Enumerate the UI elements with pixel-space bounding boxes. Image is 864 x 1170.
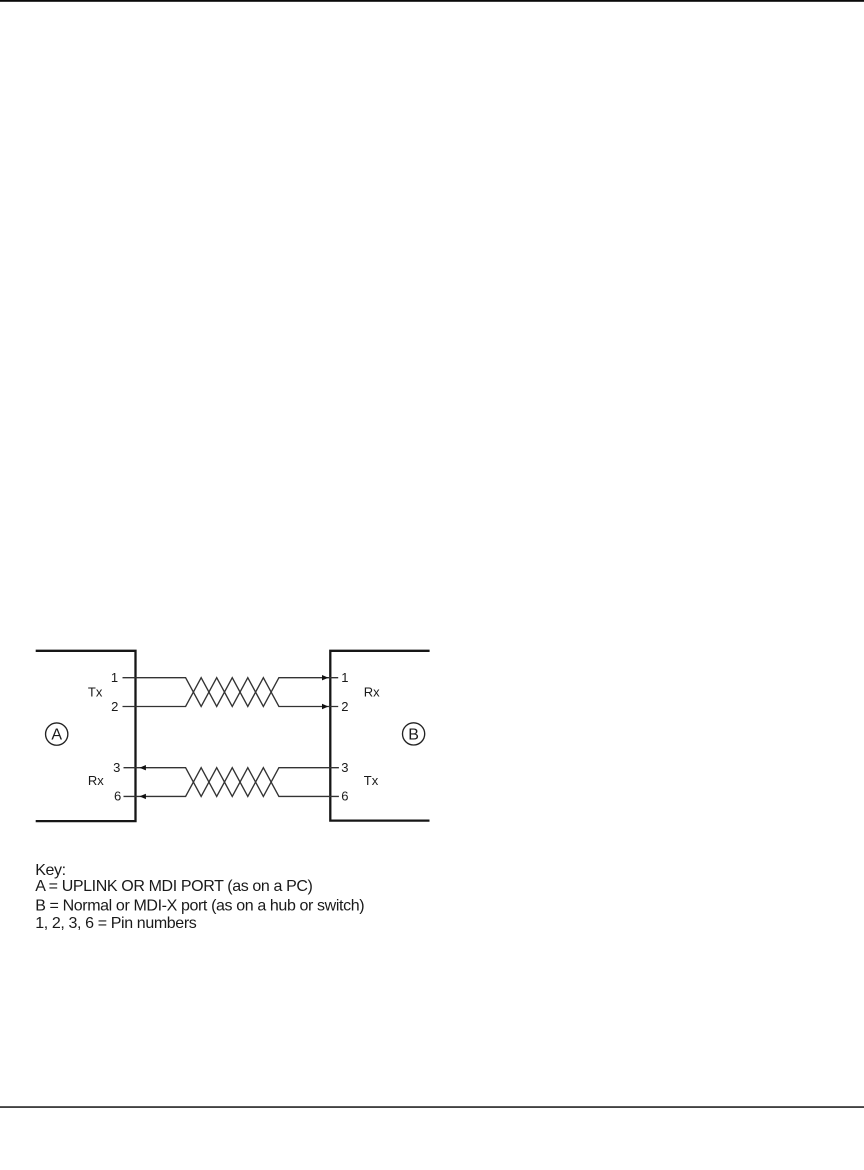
svg-text:Rx: Rx — [88, 773, 104, 788]
wire pin1 A to pin1 B (twisted pair upper, line 1) — [123, 678, 339, 707]
svg-text:6: 6 — [341, 789, 348, 804]
arrowhead into B pin2 — [322, 704, 328, 709]
svg-text:2: 2 — [341, 699, 348, 714]
svg-text:Key:: Key: — [35, 862, 65, 879]
connector block A outline — [36, 651, 136, 821]
circle label A — [46, 723, 68, 745]
top page rule — [0, 0, 864, 2]
svg-text:2: 2 — [111, 699, 118, 714]
svg-text:Tx: Tx — [364, 773, 379, 788]
wire pin2 A to pin2 B (twisted pair upper, line 2) — [123, 678, 339, 707]
svg-text:B = Normal or MDI-X port (as o: B = Normal or MDI-X port (as on a hub or… — [35, 897, 364, 914]
svg-text:1, 2, 3, 6 = Pin numbers: 1, 2, 3, 6 = Pin numbers — [35, 915, 197, 932]
connector block B outline — [330, 651, 429, 821]
wire pin3 A to pin3 B (twisted pair lower, line 1) — [124, 768, 339, 797]
circle label B — [403, 723, 425, 745]
svg-text:6: 6 — [114, 789, 121, 804]
arrowhead into B pin1 — [322, 675, 328, 680]
svg-text:A = UPLINK OR MDI PORT (as on: A = UPLINK OR MDI PORT (as on a PC) — [35, 878, 312, 895]
svg-text:3: 3 — [341, 760, 348, 775]
svg-text:Tx: Tx — [88, 684, 103, 699]
arrowhead into A pin3 — [140, 765, 146, 770]
svg-text:1: 1 — [111, 670, 118, 685]
svg-text:Rx: Rx — [364, 684, 380, 699]
arrowhead into A pin6 — [140, 794, 146, 799]
wire pin6 A to pin6 B (twisted pair lower, line 2) — [124, 768, 339, 797]
svg-text:3: 3 — [113, 760, 120, 775]
bottom page rule — [0, 1106, 864, 1108]
svg-text:1: 1 — [341, 670, 348, 685]
svg-text:B: B — [408, 726, 419, 743]
svg-text:A: A — [51, 726, 62, 743]
